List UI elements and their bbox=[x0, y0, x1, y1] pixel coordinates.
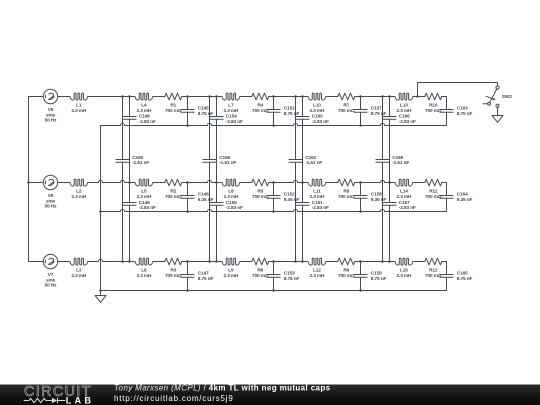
capacitor C145 8.75 nF (shunt) bbox=[181, 95, 214, 127]
svg-text:700 mΩ: 700 mΩ bbox=[425, 273, 442, 279]
capacitor C148 -2.83 nF (phase1-phase2 mutual) bbox=[123, 95, 156, 184]
inductor L4 2.3 mH bbox=[135, 93, 153, 114]
wire bbox=[240, 261, 252, 263]
svg-text:-1.61 nF: -1.61 nF bbox=[132, 160, 149, 166]
svg-text:R3: R3 bbox=[170, 268, 176, 274]
svg-text:C164: C164 bbox=[457, 192, 468, 198]
inductor L12 2.3 mH bbox=[308, 258, 326, 279]
svg-text:R2: R2 bbox=[170, 189, 176, 195]
svg-text:-2.83 nF: -2.83 nF bbox=[226, 119, 243, 125]
svg-text:V6: V6 bbox=[48, 193, 54, 199]
svg-text:C153: C153 bbox=[284, 271, 295, 277]
capacitor C160 -2.83 nF (phase1-phase2 mutual) bbox=[296, 95, 329, 184]
inductor L2 2.3 mH bbox=[70, 179, 88, 200]
footer title text bbox=[114, 384, 331, 404]
wire bbox=[182, 180, 222, 182]
svg-text:8.75 nF: 8.75 nF bbox=[457, 111, 473, 117]
inductor L11 2.3 mH bbox=[308, 179, 326, 200]
svg-text:2.3 mH: 2.3 mH bbox=[396, 108, 412, 114]
svg-text:C152: C152 bbox=[284, 192, 295, 198]
svg-text:700 mΩ: 700 mΩ bbox=[338, 194, 355, 200]
resistor R2 700 m&#937; bbox=[165, 179, 182, 200]
svg-text:2.3 mH: 2.3 mH bbox=[309, 273, 325, 279]
wire bbox=[355, 96, 395, 98]
capacitor C152 9.35 nF (shunt) bbox=[267, 181, 300, 213]
svg-text:700 mΩ: 700 mΩ bbox=[425, 194, 442, 200]
wire to termination corner bbox=[442, 261, 447, 263]
svg-text:sine: sine bbox=[46, 277, 56, 283]
capacitor C146 9.35 nF (shunt) bbox=[181, 181, 214, 213]
svg-text:-2.83 nF: -2.83 nF bbox=[312, 119, 329, 125]
svg-text:R11: R11 bbox=[429, 189, 438, 195]
capacitor C154 -2.83 nF (phase1-phase2 mutual) bbox=[210, 95, 243, 184]
voltage source V6 (sine 50 Hz) bbox=[43, 175, 57, 209]
voltage source V5 (sine 50 Hz) bbox=[43, 89, 57, 123]
capacitor C165 8.75 nF (shunt) bbox=[440, 262, 473, 291]
wire phase2 shunt bus bbox=[101, 209, 447, 211]
svg-text:L15: L15 bbox=[400, 268, 408, 274]
inductor L5 2.3 mH bbox=[135, 179, 153, 200]
wire bbox=[269, 180, 308, 182]
wire bbox=[153, 96, 165, 98]
wire phase1 run L1 to L4 bbox=[88, 96, 135, 98]
resistor R3 700 m&#937; bbox=[165, 258, 182, 279]
svg-text:R10: R10 bbox=[429, 103, 438, 109]
svg-text:R9: R9 bbox=[343, 268, 349, 274]
svg-text:700 mΩ: 700 mΩ bbox=[252, 273, 269, 279]
svg-text:C156: C156 bbox=[219, 155, 230, 161]
svg-text:-2.83 nF: -2.83 nF bbox=[226, 205, 243, 211]
svg-text:C146: C146 bbox=[198, 192, 209, 198]
svg-text:50 Hz: 50 Hz bbox=[45, 283, 58, 289]
capacitor C158 9.35 nF (shunt) bbox=[354, 181, 387, 213]
svg-text:2.3 mH: 2.3 mH bbox=[71, 273, 87, 279]
svg-text:L4: L4 bbox=[141, 103, 147, 109]
wire V7 to feed inductor bbox=[58, 261, 70, 263]
svg-text:2.3 mH: 2.3 mH bbox=[71, 108, 87, 114]
svg-text:L11: L11 bbox=[313, 189, 321, 195]
svg-text:sine: sine bbox=[46, 198, 56, 204]
wire phase2 run L2 to L5 (hops) bbox=[88, 180, 135, 182]
svg-text:L5: L5 bbox=[141, 189, 147, 195]
junction rail-V6 bbox=[27, 181, 30, 184]
svg-text:L1: L1 bbox=[76, 103, 82, 109]
wire rail to V6 bbox=[29, 182, 44, 184]
inductor L6 2.3 mH bbox=[135, 258, 153, 279]
capacitor C157 8.75 nF (shunt) bbox=[354, 95, 387, 127]
capacitor C164 9.35 nF (shunt) bbox=[440, 183, 473, 212]
ground (below SW2) bbox=[492, 107, 503, 122]
resistor R11 700 m&#937; bbox=[425, 179, 442, 200]
capacitor C151 8.75 nF (shunt) bbox=[267, 95, 300, 127]
svg-text:C159: C159 bbox=[371, 271, 382, 277]
resistor R4 700 m&#937; bbox=[252, 93, 269, 114]
resistor R6 700 m&#937; bbox=[252, 258, 269, 279]
wire bbox=[182, 96, 222, 98]
svg-text:8.75 nF: 8.75 nF bbox=[457, 276, 473, 282]
svg-text:-1.61 nF: -1.61 nF bbox=[219, 160, 236, 166]
resistor R8 700 m&#937; bbox=[338, 179, 355, 200]
capacitor C156 -1.61 nF (phase1-phase3 mutual) bbox=[203, 95, 237, 263]
svg-text:700 mΩ: 700 mΩ bbox=[338, 273, 355, 279]
wire neutral vertical bbox=[99, 126, 102, 292]
svg-text:2.3 mH: 2.3 mH bbox=[223, 108, 239, 114]
capacitor C149 -2.83 nF (phase2-phase3 mutual) bbox=[123, 183, 156, 263]
wire bbox=[413, 95, 425, 98]
svg-text:-2.83 nF: -2.83 nF bbox=[139, 205, 156, 211]
svg-text:SW2: SW2 bbox=[502, 94, 512, 100]
inductor L1 2.3 mH bbox=[70, 93, 88, 114]
svg-text:2.3 mH: 2.3 mH bbox=[223, 194, 239, 200]
svg-text:R8: R8 bbox=[343, 189, 349, 195]
wire bbox=[269, 96, 308, 98]
svg-text:700 mΩ: 700 mΩ bbox=[252, 194, 269, 200]
wire bbox=[240, 96, 252, 98]
capacitor C150 -1.61 nF (phase1-phase3 mutual) bbox=[116, 95, 150, 263]
svg-text:R7: R7 bbox=[343, 103, 349, 109]
svg-text:700 mΩ: 700 mΩ bbox=[165, 273, 182, 279]
svg-text:2.3 mH: 2.3 mH bbox=[309, 194, 325, 200]
svg-text:sine: sine bbox=[46, 112, 56, 118]
capacitor C147 8.75 nF (shunt) bbox=[181, 260, 214, 292]
svg-text:700 mΩ: 700 mΩ bbox=[252, 108, 269, 114]
svg-text:L6: L6 bbox=[141, 268, 147, 274]
svg-text:V5: V5 bbox=[48, 107, 54, 113]
wire bbox=[326, 261, 338, 263]
svg-text:C168: C168 bbox=[392, 155, 403, 161]
capacitor C161 -2.83 nF (phase2-phase3 mutual) bbox=[296, 183, 329, 263]
svg-text:700 mΩ: 700 mΩ bbox=[165, 194, 182, 200]
svg-text:C147: C147 bbox=[198, 271, 209, 277]
wire bbox=[240, 182, 252, 184]
svg-text:2.3 mH: 2.3 mH bbox=[136, 273, 152, 279]
svg-text:C163: C163 bbox=[457, 106, 468, 112]
wire bbox=[355, 180, 395, 182]
svg-text:2.3 mH: 2.3 mH bbox=[136, 108, 152, 114]
svg-text:C157: C157 bbox=[371, 106, 382, 112]
wire to termination corner bbox=[442, 182, 447, 184]
inductor L10 2.3 mH bbox=[308, 93, 326, 114]
resistor R5 700 m&#937; bbox=[252, 179, 269, 200]
wire bbox=[326, 96, 338, 98]
wire bbox=[153, 261, 165, 263]
svg-text:V7: V7 bbox=[48, 272, 54, 278]
svg-text:C162: C162 bbox=[305, 155, 316, 161]
svg-text:-2.83 nF: -2.83 nF bbox=[399, 119, 416, 125]
wire bbox=[326, 182, 338, 184]
svg-text:L10: L10 bbox=[313, 103, 321, 109]
resistor R12 700 m&#937; bbox=[425, 258, 442, 279]
wire bbox=[269, 261, 308, 263]
wire rail to V7 bbox=[29, 261, 44, 263]
ground (neutral) bbox=[95, 291, 106, 303]
svg-text:50 Hz: 50 Hz bbox=[45, 204, 58, 210]
capacitor C168 -1.61 nF (phase1-phase3 mutual) bbox=[376, 95, 410, 263]
svg-text:8.75 nF: 8.75 nF bbox=[284, 276, 300, 282]
svg-text:R4: R4 bbox=[257, 103, 263, 109]
svg-text:R6: R6 bbox=[257, 268, 263, 274]
inductor L3 2.3 mH bbox=[70, 258, 88, 279]
wire rail to V5 bbox=[29, 96, 44, 98]
svg-text:700 mΩ: 700 mΩ bbox=[338, 108, 355, 114]
svg-text:L8: L8 bbox=[228, 189, 234, 195]
resistor R9 700 m&#937; bbox=[338, 258, 355, 279]
svg-text:-2.83 nF: -2.83 nF bbox=[312, 205, 329, 211]
inductor L7 2.3 mH bbox=[222, 93, 240, 114]
svg-text:2.3 mH: 2.3 mH bbox=[396, 273, 412, 279]
svg-text:C145: C145 bbox=[198, 106, 209, 112]
resistor R10 700 m&#937; bbox=[425, 93, 442, 114]
svg-text:R1: R1 bbox=[170, 103, 176, 109]
svg-text:700 mΩ: 700 mΩ bbox=[425, 108, 442, 114]
svg-text:L9: L9 bbox=[228, 268, 234, 274]
capacitor C166 -2.83 nF (phase1-phase2 mutual) bbox=[383, 95, 416, 184]
svg-text:8.75 nF: 8.75 nF bbox=[198, 276, 214, 282]
capacitor C159 8.75 nF (shunt) bbox=[354, 260, 387, 292]
svg-text:L3: L3 bbox=[76, 268, 82, 274]
CircuitLab logo bbox=[24, 384, 91, 405]
svg-text:700 mΩ: 700 mΩ bbox=[165, 108, 182, 114]
svg-text:C165: C165 bbox=[457, 271, 468, 277]
svg-text:C166: C166 bbox=[399, 114, 410, 120]
logo squiggle (resistor + diode) bbox=[24, 398, 66, 403]
svg-text:C150: C150 bbox=[132, 155, 143, 161]
svg-text:L7: L7 bbox=[228, 103, 234, 109]
svg-text:C148: C148 bbox=[139, 114, 150, 120]
svg-text:2.3 mH: 2.3 mH bbox=[309, 108, 325, 114]
wire V5 to feed inductor bbox=[58, 96, 70, 98]
inductor L9 2.3 mH bbox=[222, 258, 240, 279]
svg-text:Tony Marxsen (MCPL) / 4km TL w: Tony Marxsen (MCPL) / 4km TL with neg mu… bbox=[114, 384, 331, 393]
resistor R1 700 m&#937; bbox=[165, 93, 182, 114]
svg-text:C155: C155 bbox=[226, 200, 237, 206]
inductor L8 2.3 mH bbox=[222, 179, 240, 200]
svg-text:LAB: LAB bbox=[66, 396, 92, 405]
voltage source V7 (sine 50 Hz) bbox=[43, 254, 57, 288]
svg-text:C160: C160 bbox=[312, 114, 323, 120]
inductor L13 2.3 mH bbox=[395, 93, 413, 114]
wire bbox=[413, 182, 425, 184]
svg-text:C158: C158 bbox=[371, 192, 382, 198]
svg-text:2.3 mH: 2.3 mH bbox=[71, 194, 87, 200]
svg-text:2.3 mH: 2.3 mH bbox=[396, 194, 412, 200]
svg-text:-2.83 nF: -2.83 nF bbox=[399, 205, 416, 211]
wire phase3 shunt bus bbox=[101, 290, 447, 292]
svg-text:-1.61 nF: -1.61 nF bbox=[392, 160, 409, 166]
capacitor C153 8.75 nF (shunt) bbox=[267, 260, 300, 292]
svg-text:L14: L14 bbox=[400, 189, 408, 195]
svg-text:L13: L13 bbox=[400, 103, 408, 109]
capacitor C155 -2.83 nF (phase2-phase3 mutual) bbox=[210, 183, 243, 263]
wire phase1 shunt bus bbox=[101, 123, 447, 125]
wire bbox=[355, 261, 395, 263]
switch SW2 bbox=[483, 86, 512, 107]
wire bbox=[153, 182, 165, 184]
resistor R7 700 m&#937; bbox=[338, 93, 355, 114]
svg-text:8.75 nF: 8.75 nF bbox=[371, 276, 387, 282]
svg-text:-2.83 nF: -2.83 nF bbox=[139, 119, 156, 125]
capacitor C163 8.75 nF (shunt) bbox=[440, 97, 473, 126]
svg-text:R5: R5 bbox=[257, 189, 263, 195]
svg-text:http://circuitlab.com/curs5j9: http://circuitlab.com/curs5j9 bbox=[114, 394, 234, 403]
inductor L15 2.3 mH bbox=[395, 258, 413, 279]
svg-text:C149: C149 bbox=[139, 200, 150, 206]
wire V6 to feed inductor bbox=[58, 182, 70, 184]
svg-text:-1.61 nF: -1.61 nF bbox=[305, 160, 322, 166]
wire phase3 run L3 to L6 (hop over neutral) bbox=[88, 259, 135, 261]
wire bbox=[182, 261, 222, 263]
svg-text:C161: C161 bbox=[312, 200, 323, 206]
wire bbox=[413, 261, 425, 263]
svg-text:C154: C154 bbox=[226, 114, 237, 120]
svg-text:C151: C151 bbox=[284, 106, 295, 112]
capacitor C167 -2.83 nF (phase2-phase3 mutual) bbox=[383, 183, 416, 263]
svg-text:50 Hz: 50 Hz bbox=[45, 118, 58, 124]
svg-text:L12: L12 bbox=[313, 268, 321, 274]
wire to termination corner bbox=[442, 96, 447, 98]
svg-text:R12: R12 bbox=[429, 268, 438, 274]
inductor L14 2.3 mH bbox=[395, 179, 413, 200]
wire left source rail bbox=[28, 97, 30, 262]
svg-text:2.3 mH: 2.3 mH bbox=[136, 194, 152, 200]
svg-text:2.3 mH: 2.3 mH bbox=[223, 273, 239, 279]
svg-text:9.35 nF: 9.35 nF bbox=[457, 197, 473, 203]
svg-text:C167: C167 bbox=[399, 200, 410, 206]
capacitor C162 -1.61 nF (phase1-phase3 mutual) bbox=[289, 95, 323, 263]
svg-text:L2: L2 bbox=[76, 189, 82, 195]
wire tap to SW2 bbox=[418, 83, 498, 97]
